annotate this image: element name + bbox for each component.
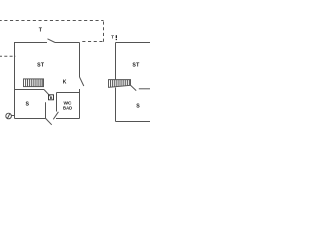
right building bottom wall: [116, 121, 151, 123]
right building left wall lower: [115, 88, 117, 122]
terrace dashed bottom-right segment: [81, 41, 103, 43]
interior wall ST/S: [15, 89, 45, 91]
right wall door leaf: [80, 77, 84, 86]
right interior door leaf: [131, 85, 137, 90]
left building right wall lower: [79, 89, 81, 119]
svg-text:K: K: [63, 80, 67, 86]
B box: [49, 95, 54, 100]
right interior wall segment: [139, 88, 150, 90]
interior wall S room vertical: [45, 102, 47, 118]
right building top wall: [116, 42, 151, 44]
bottom door leaf outward: [46, 119, 52, 125]
left building top wall right segment: [55, 42, 80, 44]
terrace dashed right line: [103, 22, 105, 43]
svg-text:BAD: BAD: [63, 105, 72, 110]
circle symbol connector: [11, 115, 14, 117]
svg-text:S: S: [136, 103, 140, 109]
WC BAD room left wall: [56, 93, 58, 112]
right building left wall upper: [115, 43, 117, 81]
bottom door leaf inner: [53, 112, 58, 120]
left building bottom wall right segment: [56, 118, 80, 120]
WC BAD room top wall: [57, 92, 80, 94]
svg-text:B: B: [50, 96, 53, 100]
svg-text:S: S: [25, 101, 29, 107]
interior door leaf: [44, 90, 50, 97]
stairs left building: [24, 79, 44, 87]
left building right wall upper: [79, 43, 81, 78]
circle symbol: [6, 113, 12, 119]
terrace dashed top line: [0, 20, 104, 22]
right building: [116, 43, 151, 122]
left building bottom wall left segment: [15, 118, 46, 120]
svg-text:ST: ST: [37, 63, 45, 69]
stairs right building: [109, 80, 131, 88]
terrace door leaf: [48, 39, 56, 43]
label T. right: [111, 35, 117, 41]
svg-text:T: T: [111, 35, 114, 40]
svg-text:ST: ST: [132, 63, 140, 69]
dashed section line left: [0, 55, 15, 57]
left building top wall left segment + left wall: [15, 43, 48, 119]
